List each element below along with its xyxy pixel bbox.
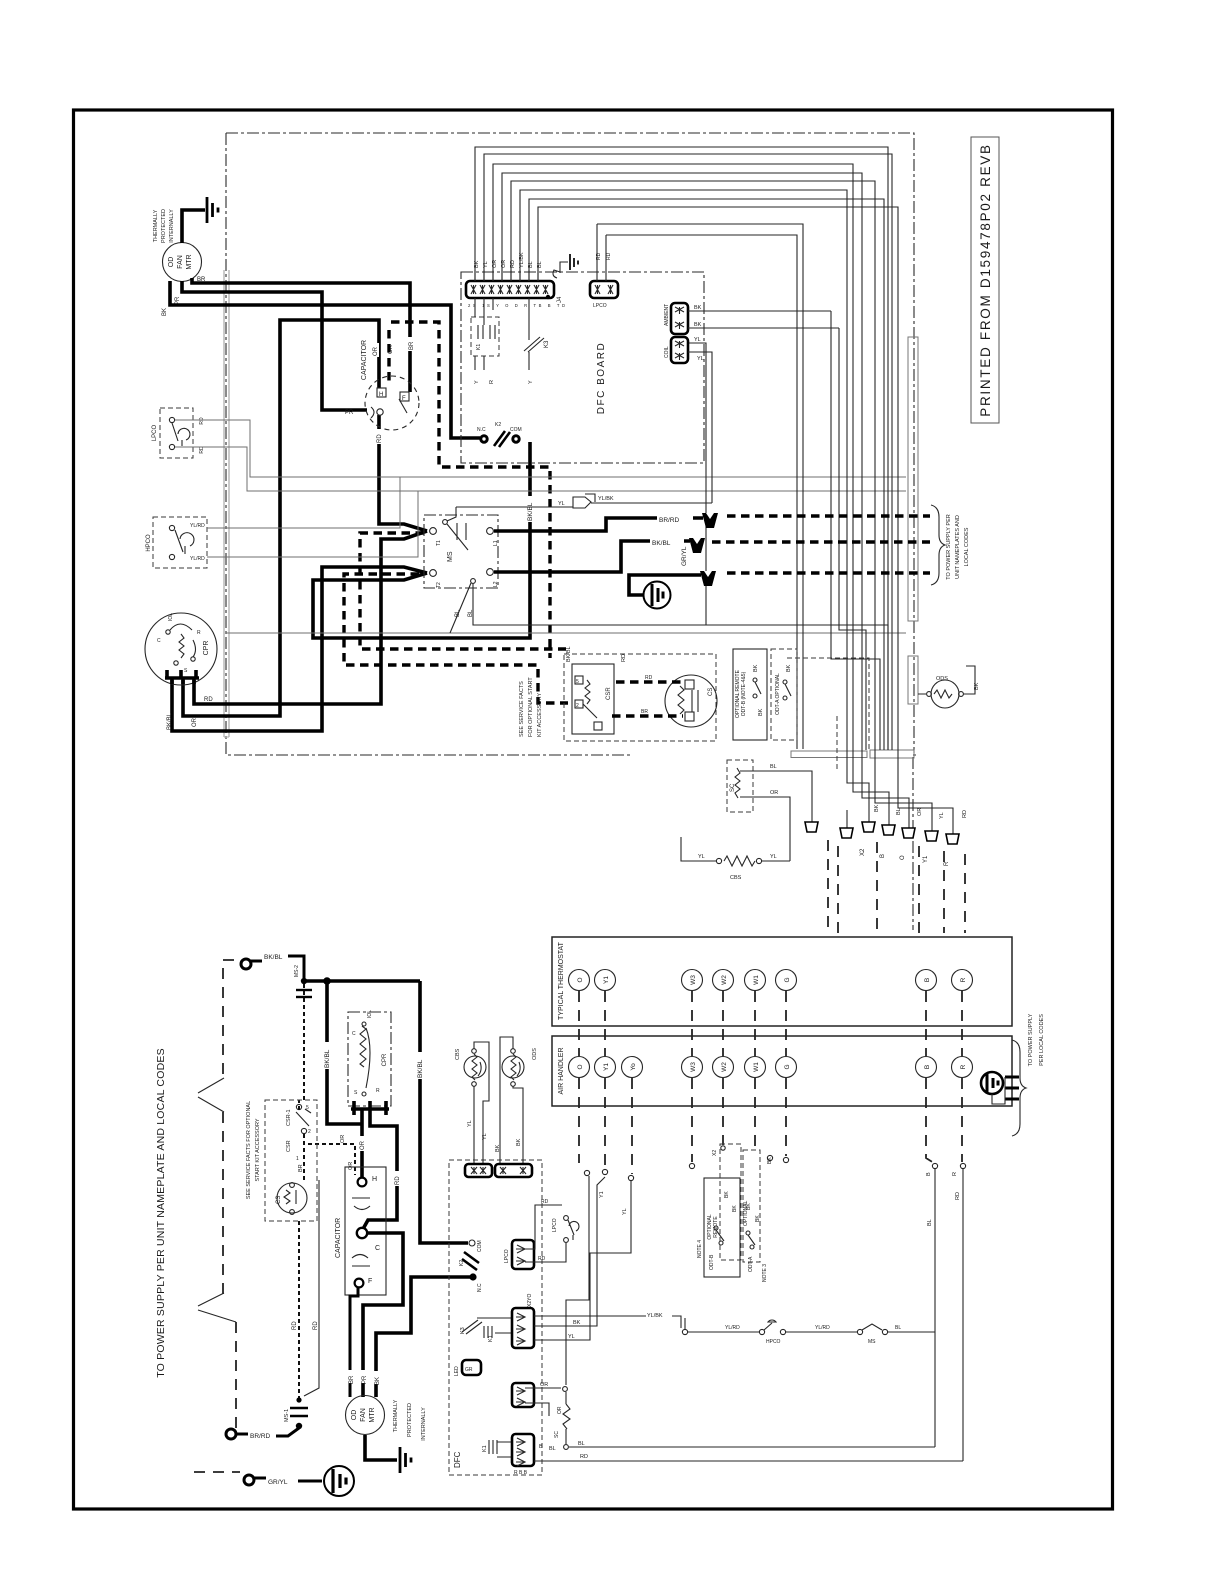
svg-text:CSR-1: CSR-1: [286, 1109, 292, 1126]
svg-text:UNIT NAMEPLATES AND: UNIT NAMEPLATES AND: [955, 515, 961, 579]
svg-text:R: R: [960, 977, 967, 982]
svg-text:5: 5: [306, 1105, 309, 1111]
svg-text:K2: K2: [495, 422, 501, 428]
svg-text:CPR: CPR: [382, 1053, 388, 1066]
svg-text:YL: YL: [694, 337, 701, 343]
svg-text:B: B: [539, 1444, 543, 1450]
svg-text:YL: YL: [568, 1334, 575, 1340]
svg-text:OR: OR: [540, 1382, 548, 1388]
svg-text:YL: YL: [770, 854, 777, 860]
svg-text:2: 2: [308, 1129, 311, 1135]
wire RD : CPR to T1 arrow lower: [194, 531, 427, 704]
ground symbol (bottom motor): [400, 1447, 411, 1473]
svg-text:BK/BL: BK/BL: [264, 954, 283, 961]
CPR lead labels: [167, 697, 213, 730]
connector LPCO on DFC (bottom): [504, 1240, 534, 1269]
svg-text:K1: K1: [476, 344, 482, 350]
svg-text:ODT-A OPTIONAL: ODT-A OPTIONAL: [775, 673, 781, 715]
svg-text:RD: RD: [541, 1199, 549, 1205]
CSR-1 contact (bottom): [286, 1104, 311, 1162]
svg-text:BK/BL: BK/BL: [167, 712, 173, 730]
start kit dashed box (bottom): [265, 1100, 317, 1221]
connector A on DFC (bottom): [465, 1164, 492, 1177]
ground circle (top): [644, 582, 671, 609]
dashed RD wire MS-1 (bottom): [292, 1221, 299, 1398]
svg-text:TO POWER SUPPLY PER UNIT NAMEP: TO POWER SUPPLY PER UNIT NAMEPLATE AND L…: [155, 1048, 167, 1378]
svg-text:BK: BK: [375, 1377, 381, 1385]
svg-text:Y1: Y1: [599, 1191, 605, 1198]
wires from X2YO connector: [534, 1177, 681, 1340]
label thermally protected internally (bottom): [393, 1399, 427, 1440]
svg-text:C: C: [352, 1031, 356, 1037]
svg-text:W2: W2: [721, 975, 728, 985]
svg-text:BR: BR: [641, 709, 648, 715]
printed from box: [971, 137, 999, 423]
relay K1 on DFC board: [471, 298, 499, 384]
svg-text:OR: OR: [373, 346, 379, 356]
optional start kit box (top): [519, 654, 716, 741]
ring terminal BK/BL (bottom): [241, 954, 304, 978]
svg-text:LOCAL CODES: LOCAL CODES: [964, 527, 970, 566]
svg-text:O: O: [900, 855, 906, 860]
svg-text:BK: BK: [753, 664, 759, 672]
wire BK/BL to K2 (bottom): [420, 981, 468, 1243]
svg-text:MTR: MTR: [186, 254, 193, 269]
svg-text:YL/BK: YL/BK: [647, 1313, 663, 1319]
svg-text:AMBIENT: AMBIENT: [664, 304, 670, 326]
svg-text:PR: PR: [345, 410, 354, 416]
svg-text:F: F: [402, 396, 406, 402]
svg-text:BL: BL: [468, 609, 474, 617]
wire RD long (bottom): [534, 1454, 963, 1461]
dashed start-kit wire from capacitor to CSR box: [391, 322, 550, 658]
svg-text:PR: PR: [362, 1375, 368, 1384]
label see service facts (bottom): [246, 1101, 261, 1199]
svg-text:IOL: IOL: [168, 613, 174, 621]
svg-text:YL: YL: [482, 1133, 488, 1140]
svg-text:DFC BOARD: DFC BOARD: [596, 342, 607, 414]
label to power supply (bottom right): [1028, 1013, 1045, 1066]
field wires into DFC (bottom): [935, 1169, 963, 1461]
capacitor (top): [345, 337, 419, 444]
svg-text:PER LOCAL CODES: PER LOCAL CODES: [1039, 1014, 1045, 1066]
CSR relay (top): [566, 646, 627, 734]
relay contact K3 on DFC board: [524, 298, 550, 384]
svg-text:BK: BK: [755, 1215, 761, 1222]
svg-text:SC: SC: [554, 1431, 560, 1438]
svg-text:NOTE 3: NOTE 3: [762, 1264, 768, 1282]
svg-text:B: B: [880, 854, 886, 858]
svg-text:LPCO: LPCO: [152, 425, 158, 442]
svg-text:BK: BK: [495, 1144, 501, 1152]
svg-text:PROTECTED: PROTECTED: [161, 209, 167, 243]
svg-text:MS-2: MS-2: [294, 965, 300, 977]
svg-text:BL: BL: [896, 808, 902, 815]
unit boundary dash-dot box (condensing unit): [226, 133, 916, 930]
ring terminal BR/RD (bottom): [226, 1428, 299, 1440]
wire RD : capacitor C to T1 arrow upper: [379, 415, 427, 531]
connector COIL: [664, 337, 712, 503]
K3 K1 relays (bottom): [460, 1318, 512, 1342]
label BK/BL lead: [650, 536, 684, 546]
label BR/RD: [657, 513, 693, 523]
MS aux contact and BL leads: [450, 343, 888, 750]
svg-text:C: C: [157, 638, 161, 644]
svg-text:HPCO: HPCO: [146, 534, 152, 552]
wire OR comb to capacitor H (bottom): [360, 1109, 364, 1179]
svg-text:YL: YL: [467, 1120, 473, 1127]
CS start capacitor (top): [665, 675, 717, 727]
CBS sensor (bottom): [455, 1042, 489, 1166]
brace to power supply (bottom right): [1012, 1040, 1026, 1136]
svg-text:CSR: CSR: [286, 1140, 292, 1152]
svg-text:RD: RD: [596, 252, 602, 260]
air handler box: [552, 1036, 1012, 1106]
svg-text:LPCO: LPCO: [504, 1249, 510, 1263]
ground symbol (top motor): [207, 197, 218, 223]
connector LPCO on DFC board: [590, 224, 618, 309]
svg-text:DFC: DFC: [453, 1451, 462, 1468]
svg-text:Y: Y: [474, 380, 480, 384]
svg-text:X2: X2: [712, 1150, 718, 1156]
thermostat interconnect dashed wires: [579, 991, 962, 1174]
svg-text:BL: BL: [770, 764, 777, 770]
svg-text:FOR OPTIONAL START: FOR OPTIONAL START: [528, 677, 534, 737]
MS-1 contact (bottom): [284, 1397, 308, 1429]
wires HPCO to right: [207, 477, 906, 633]
svg-text:BL: BL: [549, 1446, 556, 1452]
wire T2 arrow lower to K2 COM via BK/BL riser: [313, 442, 530, 638]
LPCO switch (top): [152, 408, 205, 458]
svg-text:1: 1: [296, 1156, 299, 1162]
svg-text:CPR: CPR: [203, 641, 210, 656]
svg-text:BK: BK: [694, 322, 702, 328]
svg-text:RD: RD: [580, 1454, 588, 1460]
svg-text:W3: W3: [690, 975, 697, 985]
svg-text:TO POWER SUPPLY: TO POWER SUPPLY: [1028, 1013, 1034, 1066]
svg-text:INTERNALLY: INTERNALLY: [169, 209, 175, 243]
MS-2 contact: [294, 965, 312, 1100]
spade terminal GR/YL: [700, 571, 716, 586]
SC OR chain wires (bottom): [525, 1382, 570, 1452]
svg-text:K2: K2: [459, 1260, 465, 1266]
dashed RD wire CSR to CS: [616, 680, 683, 683]
CPR terminal comb (bottom): [351, 1101, 389, 1115]
svg-text:T1: T1: [436, 540, 442, 546]
svg-text:Yo: Yo: [630, 1063, 637, 1071]
svg-text:W1: W1: [753, 975, 760, 985]
DFC board box (bottom): [449, 1160, 542, 1475]
svg-text:BR/RD: BR/RD: [250, 1433, 271, 1440]
svg-text:T2: T2: [436, 582, 442, 588]
typical thermostat box: [552, 937, 1012, 1026]
label to power supply (top): [946, 514, 970, 579]
svg-text:F: F: [368, 1278, 372, 1285]
svg-text:W1: W1: [753, 1062, 760, 1072]
wire OR : CPR to capacitor H: [183, 320, 379, 716]
MS contactor box (top): [424, 507, 573, 588]
svg-text:O: O: [577, 1064, 584, 1069]
wire K2 N.C to motor BK (bottom): [376, 1277, 470, 1397]
svg-text:X2: X2: [860, 848, 866, 856]
svg-text:B: B: [924, 978, 931, 982]
dashed BR wire to CS: [612, 714, 683, 717]
svg-text:R: R: [197, 630, 201, 636]
svg-text:RD: RD: [538, 1256, 546, 1262]
svg-text:BK: BK: [767, 1157, 773, 1164]
svg-text:BK: BK: [732, 1205, 738, 1212]
svg-text:START KIT ACCESSORY: START KIT ACCESSORY: [255, 1118, 261, 1181]
svg-text:AIR HANDLER: AIR HANDLER: [558, 1047, 565, 1094]
svg-text:OR: OR: [557, 1406, 563, 1414]
svg-text:YL/RD: YL/RD: [190, 556, 205, 562]
svg-text:B: B: [926, 1172, 932, 1176]
ODT-B optional remote box (bottom): [697, 1178, 740, 1277]
J4 pin stub wires and labels: [474, 252, 543, 281]
svg-text:CBS: CBS: [455, 1048, 461, 1060]
svg-text:BK: BK: [724, 1191, 730, 1198]
svg-text:R B B: R B B: [514, 1470, 528, 1476]
svg-text:BL: BL: [895, 1325, 901, 1331]
svg-text:BL: BL: [455, 609, 461, 617]
wires LPCO to right: [175, 420, 906, 491]
svg-text:OR: OR: [348, 1162, 354, 1170]
motor lead labels BK PR BR: [162, 277, 206, 316]
svg-text:O: O: [577, 977, 584, 982]
svg-text:BK/BL: BK/BL: [566, 646, 572, 662]
svg-text:BR: BR: [349, 1375, 355, 1384]
svg-text:C: C: [375, 1245, 380, 1252]
K2 contact (bottom): [459, 1240, 483, 1292]
svg-text:OR: OR: [340, 1135, 346, 1143]
CPR terminal comb: [165, 670, 199, 684]
svg-text:RD: RD: [395, 1176, 401, 1185]
svg-text:OR: OR: [917, 808, 923, 816]
wire BK motor to K2 N.C: [170, 281, 480, 438]
svg-text:COM: COM: [510, 427, 522, 433]
svg-text:TYPICAL THERMOSTAT: TYPICAL THERMOSTAT: [558, 941, 565, 1020]
spade terminal BK/BL: [689, 538, 705, 553]
svg-text:BR: BR: [298, 1164, 304, 1172]
svg-text:FAN: FAN: [360, 1408, 367, 1422]
svg-text:BR: BR: [409, 341, 415, 350]
svg-text:BK/BL: BK/BL: [652, 540, 671, 547]
svg-text:BL: BL: [927, 1219, 933, 1226]
svg-text:Y1: Y1: [923, 855, 929, 863]
svg-text:BK: BK: [874, 804, 880, 812]
wire RD CPR to capacitor C (bottom): [363, 1109, 397, 1229]
brace to power supply (top right): [931, 505, 945, 585]
connector B on DFC (bottom): [495, 1164, 532, 1177]
svg-text:HPCO: HPCO: [766, 1339, 781, 1345]
dashed power lead GR/YL: [727, 571, 930, 574]
svg-text:BK: BK: [974, 682, 980, 690]
svg-text:FAN: FAN: [177, 255, 184, 269]
svg-text:R: R: [952, 1172, 958, 1176]
field wire terminations (bottom): [584, 1146, 965, 1226]
svg-text:COM: COM: [477, 1240, 483, 1252]
svg-text:YL/RD: YL/RD: [815, 1325, 830, 1331]
connector AMBIENT: [664, 303, 839, 334]
svg-text:R: R: [376, 1088, 380, 1094]
wire PR motor to capacitor C: [182, 281, 367, 410]
svg-text:BK/BL: BK/BL: [527, 502, 534, 521]
wire motor to ground (bottom): [365, 1435, 397, 1460]
CBS sensor (top): [681, 837, 790, 881]
svg-text:MS: MS: [447, 551, 454, 562]
dashed GR/YL lead (bottom): [194, 1471, 240, 1473]
wire L1 to BR/RD lead: [494, 518, 703, 531]
dashed OR wire CSR-1 to capacitor H (bottom): [308, 1135, 355, 1175]
svg-text:THERMALLY: THERMALLY: [153, 209, 159, 242]
svg-text:RD: RD: [204, 697, 213, 703]
K1 coil (bottom lower): [482, 1440, 512, 1457]
YL/BK quick connector (top middle): [558, 494, 712, 508]
ring terminal GR/YL (bottom): [244, 1475, 322, 1486]
dashed start-kit wire T1 to CSR box: [360, 533, 566, 649]
wire capacitor C to motor PR (bottom): [363, 1233, 403, 1397]
svg-text:OR: OR: [192, 717, 198, 727]
svg-text:YL: YL: [697, 356, 704, 362]
HPCO switch (top): [146, 517, 207, 568]
thermostat terminals: [569, 970, 973, 991]
svg-text:CAPACITOR: CAPACITOR: [335, 1218, 342, 1258]
svg-text:BK: BK: [573, 1320, 581, 1326]
svg-text:X2YO: X2YO: [527, 1294, 533, 1307]
capacitor (bottom): [335, 1167, 386, 1295]
svg-text:W3: W3: [690, 1062, 697, 1072]
dashed start-kit wire T2 to CS: [344, 574, 568, 703]
svg-text:NOTE 4: NOTE 4: [697, 1240, 703, 1258]
ODT-B optional remote box (top): [733, 649, 767, 740]
label BK/BL riser: [524, 496, 534, 522]
connector X2YO on DFC (bottom): [512, 1294, 534, 1348]
svg-text:BK: BK: [516, 1138, 522, 1146]
svg-text:COIL: COIL: [664, 346, 670, 358]
CS start capacitor (bottom): [276, 1183, 307, 1215]
svg-text:MS-1: MS-1: [284, 1409, 290, 1422]
svg-text:PRINTED FROM D159478P02 REVB: PRINTED FROM D159478P02 REVB: [978, 143, 993, 416]
svg-text:CBS: CBS: [730, 875, 742, 881]
motor OD FAN MTR (bottom): [346, 1370, 385, 1435]
svg-text:RD: RD: [962, 810, 968, 818]
svg-text:SEE SERVICE FACTS FOR OPTIONAL: SEE SERVICE FACTS FOR OPTIONAL: [246, 1101, 252, 1199]
wire BL long (bottom): [569, 1441, 935, 1447]
wire BK/BL to capacitor H (bottom): [327, 981, 362, 1124]
small ground near J4: [553, 254, 578, 278]
solid RD wire (bottom): [304, 1180, 319, 1396]
ground circle (bottom): [324, 1466, 354, 1496]
svg-text:YL/RD: YL/RD: [190, 523, 205, 529]
border frame: [74, 110, 1113, 1509]
svg-text:R: R: [960, 1064, 967, 1069]
dashed OR wire into capacitor H: [387, 330, 390, 386]
svg-text:GR: GR: [465, 1367, 473, 1373]
svg-text:K3: K3: [460, 1327, 466, 1334]
svg-text:ODS: ODS: [936, 676, 948, 682]
wire BR motor to capacitor F: [192, 278, 410, 392]
svg-text:LPCO: LPCO: [552, 1218, 558, 1232]
svg-text:L2: L2: [493, 581, 499, 587]
svg-text:RD: RD: [621, 654, 627, 662]
svg-text:RD: RD: [645, 675, 653, 681]
svg-text:ODS: ODS: [532, 1048, 538, 1060]
connector OR on DFC (bottom): [512, 1383, 534, 1407]
svg-text:K1: K1: [488, 1335, 494, 1342]
svg-text:K1: K1: [482, 1445, 488, 1452]
wire GR/YL pigtail: [629, 575, 701, 595]
CPR compressor (top): [145, 613, 217, 685]
svg-text:YL: YL: [558, 501, 565, 507]
svg-text:IOL: IOL: [367, 1010, 373, 1018]
svg-text:OD: OD: [351, 1410, 358, 1421]
ODS sensor (top right): [908, 656, 980, 708]
svg-text:CAPACITOR: CAPACITOR: [361, 340, 368, 380]
svg-text:RD: RD: [313, 1321, 319, 1330]
svg-text:PROTECTED: PROTECTED: [407, 1403, 413, 1437]
LPCO switch loop (bottom): [525, 1199, 579, 1262]
wire L2 to BK/BL lead: [494, 541, 690, 572]
svg-text:2S 1S Y O D R TB B TD: 2S 1S Y O D R TB B TD: [468, 303, 568, 308]
svg-text:N.C: N.C: [477, 1283, 483, 1292]
ODS sensor (bottom): [495, 1037, 538, 1166]
svg-text:RD: RD: [292, 1321, 298, 1330]
svg-text:BK/BL: BK/BL: [324, 1049, 331, 1068]
svg-text:LED: LED: [454, 1366, 460, 1376]
svg-text:ODT-A: ODT-A: [748, 1256, 754, 1272]
svg-text:5: 5: [576, 679, 579, 685]
junction dots (bottom): [301, 978, 307, 984]
svg-text:BK: BK: [758, 708, 764, 716]
air handler terminals: [569, 1057, 973, 1078]
dashed supply bus left: [198, 960, 236, 1428]
svg-text:YL/RD: YL/RD: [725, 1325, 740, 1331]
svg-text:Y1: Y1: [603, 976, 610, 984]
svg-text:CS: CS: [708, 688, 714, 696]
svg-text:G: G: [784, 1064, 791, 1069]
harness bar right vertical (top): [908, 337, 918, 621]
ODT-A optional box (top): [771, 649, 797, 740]
nested wire bundle from J4 up and right: [475, 147, 953, 834]
svg-text:OD: OD: [168, 257, 175, 268]
svg-text:CS: CS: [276, 1196, 282, 1204]
svg-text:R: R: [489, 380, 495, 384]
svg-text:BK/BL: BK/BL: [417, 1059, 424, 1078]
svg-text:Y: Y: [528, 380, 534, 384]
svg-text:L1: L1: [493, 540, 499, 546]
label thermally protected internally (top): [153, 209, 175, 243]
svg-text:2: 2: [576, 703, 579, 709]
svg-text:MS: MS: [868, 1339, 876, 1345]
svg-text:ODT-B (NOTE-4&5): ODT-B (NOTE-4&5): [741, 671, 747, 716]
svg-text:H: H: [379, 392, 383, 398]
connector K1 R-B-B on DFC (bottom): [512, 1434, 543, 1476]
svg-text:RD: RD: [606, 252, 612, 260]
svg-text:YL: YL: [698, 854, 705, 860]
svg-text:KIT ACCESSORY: KIT ACCESSORY: [537, 693, 543, 737]
svg-text:RD: RD: [377, 434, 383, 443]
wire BK/BL bus (bottom): [304, 979, 420, 983]
spade terminal BR/RD: [702, 513, 718, 528]
LED GR indicator (bottom): [454, 1360, 481, 1376]
svg-text:YL: YL: [939, 812, 945, 819]
connector J4: [466, 281, 568, 308]
harness bar horizontal (top): [791, 751, 867, 758]
svg-text:TO POWER SUPPLY PER: TO POWER SUPPLY PER: [946, 514, 952, 579]
svg-text:CSR: CSR: [606, 687, 612, 700]
wire O to SC chain (bottom): [566, 1176, 589, 1385]
svg-text:ODT-B: ODT-B: [709, 1254, 715, 1270]
